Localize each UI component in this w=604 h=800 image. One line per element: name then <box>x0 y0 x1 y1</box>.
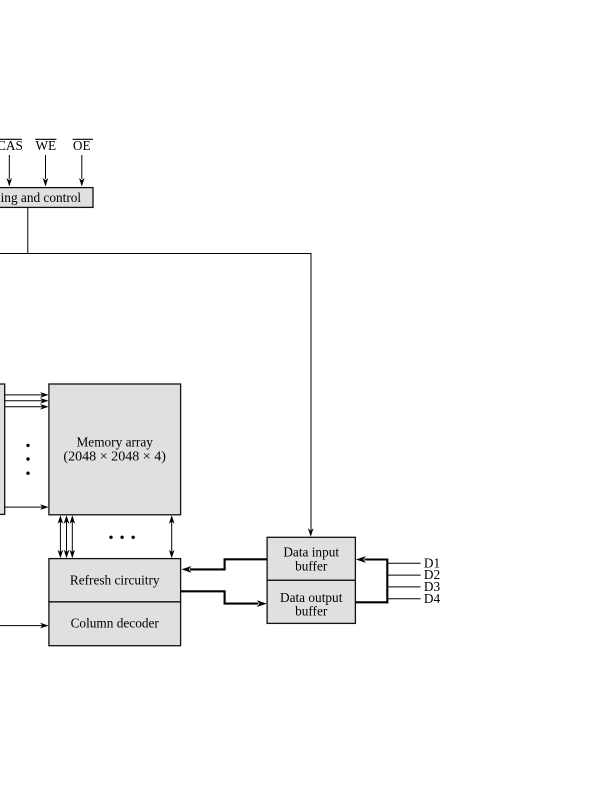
svg-text:OE: OE <box>73 138 91 153</box>
wire D bus into data input buffer (thick) <box>356 556 387 563</box>
box Refresh circuitry <box>49 559 181 602</box>
node horizontal ellipsis dots <box>109 536 135 539</box>
wire data output buffer to D bus (thick) <box>355 601 387 603</box>
wire double arrow 1 memory array to refresh <box>58 515 64 558</box>
wire data input buffer to refresh circuitry (thick, stepped) <box>182 559 268 573</box>
wire arrow into column decoder from left <box>0 623 49 629</box>
wire horizontal bus to the right <box>0 253 311 255</box>
wire CAS arrow into timing block <box>7 155 13 187</box>
wire vertical down to data input buffer with arrow <box>308 253 314 537</box>
svg-text:(2048 × 2048 × 4): (2048 × 2048 × 4) <box>63 449 166 464</box>
wire double arrow right memory array to refresh <box>169 515 175 558</box>
wire row decoder to memory array arrow 1 <box>5 392 49 398</box>
wire D1 lead <box>387 562 420 564</box>
node CAS (active-low label, cut off at left) <box>0 138 23 153</box>
wire D4 lead <box>387 598 420 600</box>
svg-text:Column decoder: Column decoder <box>71 616 160 631</box>
wire double arrow 3 memory array to refresh <box>70 515 76 558</box>
svg-text:Memory array: Memory array <box>76 435 153 450</box>
svg-text:buffer: buffer <box>295 603 328 618</box>
node vertical ellipsis dots <box>26 444 29 475</box>
wire D bus vertical (thick) <box>386 559 388 604</box>
node WE (active-low label) <box>35 138 56 153</box>
box Data input buffer <box>267 537 355 580</box>
wire OE arrow into timing block <box>79 155 85 187</box>
svg-text:D4: D4 <box>424 591 441 606</box>
wire D2 lead <box>387 574 420 576</box>
wire row decoder to memory array arrow bottom <box>5 504 49 510</box>
wire WE arrow into timing block <box>43 155 49 187</box>
svg-text:Refresh circuitry: Refresh circuitry <box>70 573 160 588</box>
box Memory array <box>49 384 181 515</box>
svg-text:Data input: Data input <box>283 544 339 559</box>
svg-text:Timing and control: Timing and control <box>0 190 81 205</box>
svg-text:WE: WE <box>36 138 57 153</box>
svg-text:buffer: buffer <box>295 559 328 574</box>
wire refresh circuitry to data output buffer (thick, stepped) <box>181 591 267 607</box>
svg-text:CAS: CAS <box>0 138 23 153</box>
wire D3 lead <box>387 586 420 588</box>
wire double arrow 2 memory array to refresh <box>64 515 70 558</box>
wire row decoder to memory array arrow 2 <box>5 398 49 404</box>
wire row decoder to memory array arrow 3 <box>5 404 49 410</box>
box Data output buffer <box>267 580 355 623</box>
node OE (active-low label) <box>73 138 93 153</box>
box Row decoder (cut off at left) <box>0 384 5 514</box>
wire from timing block down <box>27 208 29 254</box>
box Timing and control (cut off at left) <box>0 188 93 208</box>
box Column decoder <box>49 602 181 646</box>
